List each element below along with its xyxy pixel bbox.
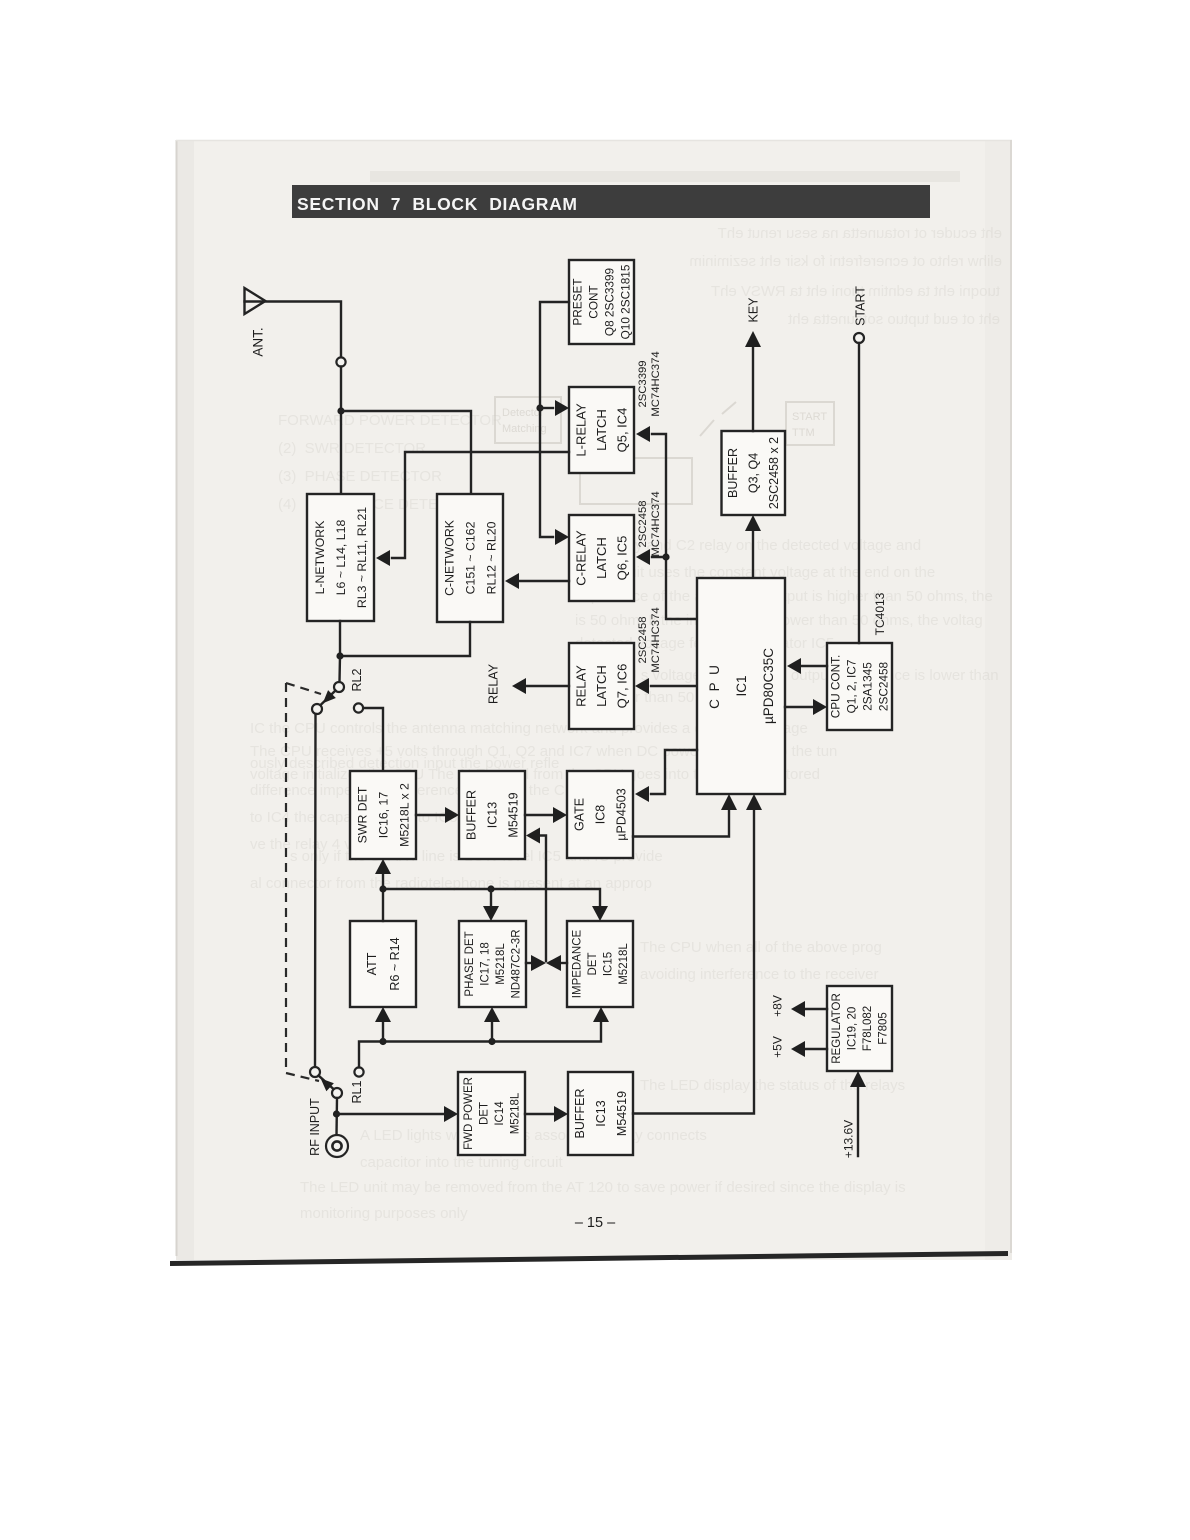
svg-text:Q5, IC4: Q5, IC4 — [615, 408, 630, 453]
wire L-NETWORK bottom to junction — [339, 621, 341, 656]
svg-text:REGULATOR: REGULATOR — [831, 993, 843, 1064]
wire CPU CONT to CPU — [801, 665, 827, 667]
svg-text:Q6, IC5: Q6, IC5 — [615, 536, 630, 581]
svg-text:monitoring purposes only: monitoring purposes only — [300, 1205, 468, 1222]
switch RL1: node upper throw circle — [310, 1067, 320, 1077]
label KEY — [747, 297, 761, 323]
wire RF junction to FWD POWER DET — [337, 1113, 445, 1115]
wire preset bus vertical — [540, 302, 569, 537]
box PRESET CONT — [569, 260, 634, 344]
arrow into GATE right — [635, 786, 649, 802]
section header bar — [292, 185, 930, 218]
wire phase/impedance outputs to buffer — [541, 836, 546, 962]
svg-text:ATT: ATT — [365, 952, 379, 975]
box BUFFER bottom — [568, 1072, 633, 1155]
wire ATT up through SWR DET — [382, 872, 384, 921]
svg-text:PHASE DET: PHASE DET — [464, 931, 476, 996]
svg-text:SWR DET: SWR DET — [356, 786, 370, 843]
svg-text:2SC2458 x 2: 2SC2458 x 2 — [767, 437, 781, 509]
svg-text:The LED unit may be removed fr: The LED unit may be removed from the AT … — [300, 1179, 906, 1196]
box IMPEDANCE DET — [567, 921, 633, 1007]
svg-text:TTM: TTM — [792, 427, 815, 439]
arrow into C-NETWORK right — [505, 573, 519, 589]
wire CPU top to buffer bottom — [752, 530, 754, 578]
arrow into IMPEDANCE DET bottom — [593, 1007, 609, 1022]
node junction x383 — [379, 885, 386, 892]
arrow into C-RELAY left — [555, 529, 569, 545]
svg-text:+13.6V: +13.6V — [842, 1120, 856, 1158]
wire buffer to gate — [525, 814, 553, 816]
svg-text:RL1: RL1 — [350, 1080, 364, 1103]
svg-text:RELAY: RELAY — [487, 663, 501, 704]
wire CPU to GATE — [651, 750, 697, 794]
svg-text:+5V: +5V — [771, 1036, 785, 1058]
svg-text:LATCH: LATCH — [594, 409, 609, 451]
svg-text:GATE: GATE — [573, 798, 587, 831]
arrow into CPU CONT left — [813, 699, 827, 715]
svg-text:M5218L x 2: M5218L x 2 — [398, 783, 412, 847]
svg-text:Q3, Q4: Q3, Q4 — [747, 453, 761, 493]
svg-text:The CPU when all of the above: The CPU when all of the above prog — [640, 939, 882, 956]
svg-text:KEY: KEY — [747, 297, 761, 323]
arrow into ATT bottom — [375, 1007, 391, 1022]
svg-text:IC19, 20: IC19, 20 — [847, 1007, 859, 1050]
arrow into RELAY latch right — [635, 678, 649, 694]
arrow into SWR DET bottom — [375, 859, 391, 874]
arrow into PHASE DET top — [483, 906, 499, 921]
svg-text:µPD4503: µPD4503 — [615, 788, 629, 840]
wire GATE output to CPU — [633, 809, 729, 837]
svg-text:elihw rehto ot ecnerefretni fo: elihw rehto ot ecnerefretni fo ksir eht … — [689, 253, 1002, 270]
svg-text:FORWARD POWER DETECTOR: FORWARD POWER DETECTOR — [278, 412, 502, 429]
svg-text:IC16, 17: IC16, 17 — [377, 792, 391, 839]
wire ATT feed riser — [382, 1021, 384, 1042]
box BUFFER mid — [459, 771, 525, 859]
svg-text:TC4013: TC4013 — [873, 592, 887, 635]
wire START to CPU CONT — [858, 343, 860, 643]
arrow bowtie left-pointing — [546, 955, 561, 971]
wire RL2 left throw down to RL1 — [314, 714, 317, 1067]
label 2SC2458 MC74HC374 (C-relay) — [637, 491, 662, 556]
page edges — [176, 140, 178, 1256]
wire down to L-NETWORK — [340, 367, 342, 495]
svg-text:RL3 ~ RL11, RL21: RL3 ~ RL11, RL21 — [355, 507, 369, 608]
node junction bus x666 — [662, 553, 669, 560]
label START — [854, 286, 868, 326]
node junction at antenna line — [337, 407, 344, 414]
wire junction to L-RELAY left — [540, 407, 553, 409]
svg-text:M54519: M54519 — [507, 792, 521, 837]
svg-text:L6 ~ L14, L18: L6 ~ L14, L18 — [334, 520, 348, 596]
arrow into C-RELAY right — [636, 549, 650, 565]
arrow into L-RELAY left — [555, 400, 569, 416]
svg-text:IC17, 18: IC17, 18 — [480, 942, 492, 985]
svg-text:C-NETWORK: C-NETWORK — [443, 519, 457, 596]
label ANT. — [251, 327, 266, 356]
label TC4013 — [873, 592, 887, 635]
svg-text:Q10 2SC1815: Q10 2SC1815 — [619, 264, 633, 339]
wire junction to C-NETWORK top — [341, 411, 471, 494]
switch RL2 arm — [319, 691, 336, 707]
svg-text:IMPEDANCE: IMPEDANCE — [572, 929, 584, 998]
svg-text:R6 ~ R14: R6 ~ R14 — [388, 937, 402, 990]
wire buffer bottom to CPU — [633, 808, 754, 1114]
arrow +8V — [791, 1001, 805, 1017]
node junction PHASE feed — [488, 1038, 495, 1045]
svg-text:CPU CONT.: CPU CONT. — [829, 655, 843, 719]
svg-text:M5218L: M5218L — [495, 943, 507, 985]
arrow into L-NETWORK right — [376, 550, 390, 566]
svg-text:MC74HC374: MC74HC374 — [650, 351, 662, 416]
wire junction to RL2 pole — [338, 656, 341, 682]
wire RL1 right circle up to detector feed line — [359, 1022, 601, 1067]
wire RELAY latch output — [527, 685, 569, 687]
svg-text:eht ot eud tuptuo sotaunetta e: eht ot eud tuptuo sotaunetta eht — [787, 311, 1000, 328]
svg-text:LATCH: LATCH — [594, 665, 609, 707]
svg-text:F78L082: F78L082 — [862, 1006, 874, 1051]
svg-text:– 15 –: – 15 – — [575, 1215, 616, 1231]
svg-text:Q1, 2, IC7: Q1, 2, IC7 — [845, 660, 859, 714]
svg-text:C151 ~ C162: C151 ~ C162 — [464, 521, 478, 594]
label 2SC3399 MC74HC374 — [637, 351, 662, 416]
arrow into PHASE DET bottom — [484, 1007, 500, 1022]
wire C-RELAY latch output to C-NETWORK — [519, 580, 569, 582]
svg-text:BUFFER: BUFFER — [465, 790, 479, 840]
svg-text:IC15: IC15 — [603, 952, 615, 976]
RF input connector — [326, 1135, 348, 1157]
wire impedance det left stub — [561, 962, 567, 964]
arrow into buffer bottom left — [554, 1106, 568, 1122]
box ATT — [350, 921, 416, 1007]
svg-text:Q8 2SC3399: Q8 2SC3399 — [603, 268, 617, 336]
node RL1 right circle — [354, 1067, 363, 1076]
svg-text:PRESET: PRESET — [571, 278, 585, 325]
svg-text:IC8: IC8 — [594, 805, 608, 825]
node RL2 throw circle right — [354, 703, 363, 712]
wire latch feedback bus x666 — [652, 434, 697, 619]
svg-text:IC1: IC1 — [734, 675, 749, 696]
box REGULATOR — [827, 986, 892, 1071]
svg-text:IC13: IC13 — [594, 1100, 608, 1126]
svg-text:SECTION 7 BLOCK DIAGRAM: SECTION 7 BLOCK DIAGRAM — [297, 194, 578, 214]
wire regulator +5V — [805, 1048, 827, 1050]
svg-text:RL2: RL2 — [350, 668, 364, 691]
label RF INPUT — [308, 1098, 322, 1156]
wire RL2 right throw to SWR DET top — [363, 708, 383, 771]
node RL1 pole circle — [332, 1088, 342, 1098]
svg-text:DET: DET — [479, 1102, 491, 1125]
label RL1 — [350, 1080, 364, 1103]
node junction ATT feed — [379, 1038, 386, 1045]
svg-text:BUFFER: BUFFER — [573, 1089, 587, 1139]
arrow into gate left — [553, 807, 567, 823]
svg-text:+8V: +8V — [771, 995, 785, 1017]
label +8V — [771, 995, 785, 1017]
svg-text:C-RELAY: C-RELAY — [574, 530, 589, 586]
wire CPU to CPU CONT — [785, 706, 813, 708]
svg-text:capacitor into the tuning circ: capacitor into the tuning circuit — [360, 1154, 563, 1171]
node RL2 throw circle left — [312, 704, 322, 714]
wire junction to C-RELAY right — [652, 556, 666, 558]
svg-text:(3) PHASE DETECTOR: (3) PHASE DETECTOR — [278, 468, 442, 485]
svg-text:C P U: C P U — [707, 663, 722, 709]
wire PHASE feed riser — [491, 1021, 493, 1042]
node START circle — [854, 333, 864, 343]
wire buffer to KEY — [752, 346, 754, 431]
node junction RF input — [333, 1110, 340, 1117]
svg-text:F7805: F7805 — [878, 1012, 890, 1045]
box RELAY LATCH — [569, 643, 634, 729]
svg-text:2SC2458: 2SC2458 — [637, 616, 649, 663]
box PHASE DET — [459, 921, 526, 1007]
svg-text:Q7, IC6: Q7, IC6 — [615, 664, 630, 709]
svg-text:A LED lights whenever its asso: A LED lights whenever its associated rel… — [360, 1127, 707, 1144]
box FWD POWER DET — [458, 1072, 525, 1155]
arrow into CPU right — [787, 658, 801, 674]
label +13.6V — [842, 1120, 856, 1158]
wire antenna to corner — [245, 302, 342, 358]
arrow into buffer bottom — [745, 515, 761, 531]
label RL2 — [350, 668, 364, 691]
wire dashed relay linkage vertical — [286, 683, 321, 1081]
arrow KEY — [745, 331, 761, 347]
wire CPU to RELAY latch — [651, 685, 697, 687]
svg-text:L-RELAY: L-RELAY — [574, 403, 589, 457]
svg-text:LATCH: LATCH — [594, 537, 609, 579]
box CPU — [697, 578, 785, 794]
svg-text:The CPU s voltage of IC1. If t: The CPU s voltage of IC1. If the output … — [575, 667, 999, 684]
label RELAY — [487, 663, 501, 704]
svg-text:M5218L: M5218L — [618, 943, 630, 985]
node junction x491 — [487, 885, 494, 892]
svg-text:µPD80C35C: µPD80C35C — [761, 648, 776, 724]
arrow into buffer right — [526, 828, 540, 844]
svg-text:M5218L: M5218L — [510, 1092, 522, 1134]
svg-text:MC74HC374: MC74HC374 — [650, 607, 662, 672]
svg-text:START: START — [854, 286, 868, 326]
box SWR DET — [350, 771, 416, 859]
node RL2 pole circle — [334, 682, 344, 692]
svg-text:ND487C2-3R: ND487C2-3R — [511, 929, 523, 998]
svg-text:IC14: IC14 — [494, 1101, 506, 1126]
ghost bleedthrough text layer — [250, 225, 1002, 1222]
svg-text:2SC2458: 2SC2458 — [637, 500, 649, 547]
label +5V — [771, 1036, 785, 1058]
svg-text:2SC3399: 2SC3399 — [637, 360, 649, 407]
box CPU CONT — [827, 643, 892, 730]
svg-text:IC13: IC13 — [486, 802, 500, 828]
antenna symbol — [245, 288, 266, 314]
svg-text:ously described detection inpu: ously described detection input the powe… — [250, 755, 559, 772]
node junction preset bus — [536, 404, 543, 411]
svg-text:BUFFER: BUFFER — [726, 448, 740, 498]
arrow into L-RELAY right — [636, 426, 650, 442]
label 2SC2458 MC74HC374 (relay) — [637, 607, 662, 672]
box GATE — [567, 771, 633, 858]
box C-RELAY LATCH — [569, 515, 634, 601]
svg-text:avoiding interference to the r: avoiding interference to the receiver — [640, 966, 878, 983]
wire FWD POWER DET to buffer — [525, 1113, 554, 1115]
arrow into CPU bottom (from fwd buffer) — [746, 794, 762, 810]
svg-text:RL12 ~ RL20: RL12 ~ RL20 — [485, 521, 499, 594]
svg-text:START: START — [792, 411, 827, 423]
svg-text:2SA1345: 2SA1345 — [861, 662, 875, 711]
wire phase det right stub — [526, 962, 532, 964]
svg-text:The LED display the status of: The LED display the status of the relays — [640, 1077, 905, 1094]
svg-text:2SC2458: 2SC2458 — [877, 661, 891, 711]
arrow into IMPEDANCE DET top — [592, 906, 608, 921]
svg-text:FWD POWER: FWD POWER — [463, 1077, 475, 1150]
svg-text:DET: DET — [587, 953, 599, 976]
wire RL1 pole to RF input junction — [335, 1098, 338, 1135]
switch RL1 arm — [319, 1076, 335, 1090]
node junction below L-NETWORK — [336, 652, 343, 659]
wire regulator +8V — [805, 1008, 827, 1010]
arrow into regulator bottom — [850, 1071, 866, 1087]
wire L-RELAY latch output to L-NETWORK — [392, 452, 569, 558]
svg-text:RF INPUT: RF INPUT — [308, 1098, 322, 1156]
wire detector feed horizontal — [383, 889, 600, 908]
arrow +5V — [791, 1041, 805, 1057]
svg-text:ANT.: ANT. — [251, 327, 266, 356]
svg-text:M54519: M54519 — [615, 1091, 629, 1136]
node antenna connector circle — [336, 357, 345, 366]
box L-RELAY LATCH — [569, 387, 634, 473]
arrow bowtie right-pointing — [531, 955, 546, 971]
wire SWR DET to buffer — [416, 814, 445, 816]
svg-text:eht ecuder ot rotaunetta na se: eht ecuder ot rotaunetta na sesu renut e… — [718, 225, 1002, 242]
box L-NETWORK — [307, 494, 374, 621]
box C-NETWORK — [437, 494, 503, 622]
wire junction to PHASE DET top — [490, 889, 492, 908]
wire C-NETWORK bottom to junction — [340, 622, 470, 656]
arrow RELAY output — [512, 678, 526, 694]
svg-text:CONT: CONT — [587, 285, 601, 318]
svg-text:RELAY: RELAY — [574, 665, 589, 707]
svg-text:L-NETWORK: L-NETWORK — [313, 520, 327, 595]
arrow into buffer left — [445, 807, 459, 823]
arrow into CPU bottom (from gate) — [721, 794, 737, 810]
box BUFFER Q3 Q4 — [722, 431, 786, 515]
svg-text:MC74HC374: MC74HC374 — [650, 491, 662, 556]
arrow into FWD POWER DET left — [444, 1106, 458, 1122]
wire +13.6V supply — [857, 1086, 859, 1156]
